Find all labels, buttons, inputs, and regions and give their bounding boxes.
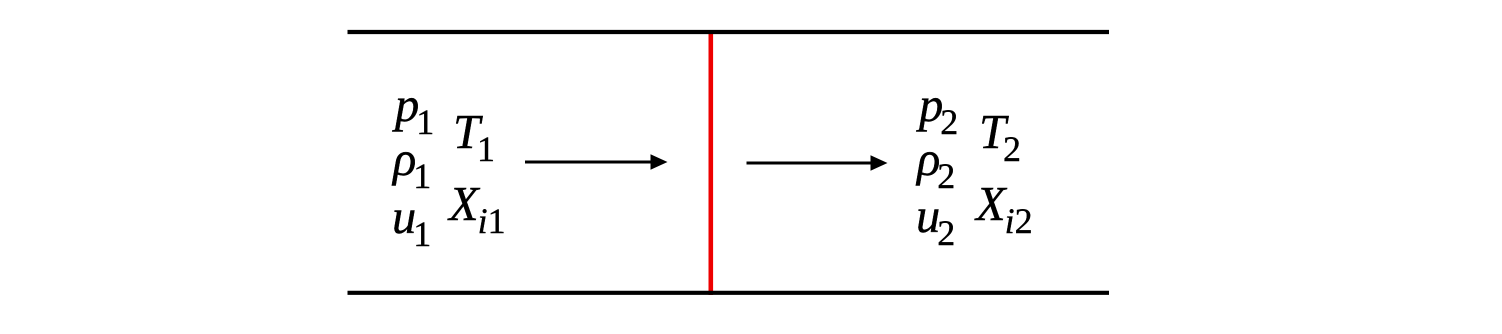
label u2 — [916, 193, 955, 251]
label p1 — [395, 82, 434, 140]
label T2 — [979, 109, 1021, 167]
label rho2 — [917, 136, 955, 194]
label p2 — [919, 82, 958, 140]
duct top wall — [348, 30, 1110, 34]
label u1 — [392, 194, 431, 252]
label rho1 — [393, 136, 431, 194]
label T1 — [453, 109, 495, 167]
duct bottom wall — [348, 291, 1110, 295]
flow arrow upstream — [525, 154, 668, 169]
shock front (red vertical line) — [708, 30, 713, 295]
label Xi1 — [449, 181, 506, 239]
label Xi2 — [976, 181, 1033, 239]
flow arrow downstream — [747, 155, 888, 170]
